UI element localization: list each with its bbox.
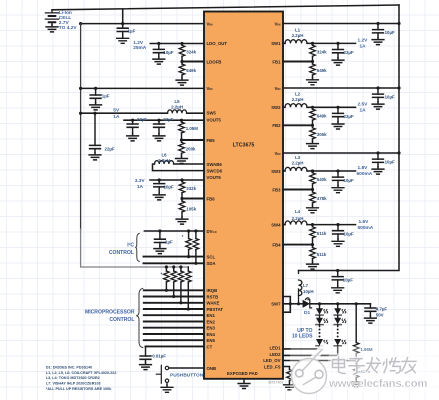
wire: drop from top rail to VIN1 line (122, 9, 124, 28)
resistor 324k (FB1 top) (311, 42, 314, 45)
pushbutton SW (156, 365, 168, 383)
ground (372, 102, 384, 109)
svg-text:2.2µH: 2.2µH (292, 216, 304, 221)
capacitor C1 1uF (VIN1) (117, 28, 128, 31)
wire: SCL line (144, 256, 205, 258)
wire: FB5 line (182, 139, 205, 141)
LED D7 (334, 339, 346, 346)
svg-text:VOUT6: VOUT6 (207, 175, 222, 180)
output label 2.5V 1A (358, 101, 369, 113)
wire: FB3 line (283, 189, 313, 191)
ground (332, 185, 344, 192)
svg-text:EN1: EN1 (207, 313, 216, 318)
ground (372, 37, 384, 44)
ground (332, 122, 344, 129)
ground (FB1) (307, 78, 319, 85)
svg-text:SWAB6: SWAB6 (207, 162, 223, 167)
svg-text:1A: 1A (360, 43, 367, 49)
svg-text:CONTROL: CONTROL (109, 250, 134, 256)
resistor 324k (LDO divider top) (180, 42, 183, 45)
svg-text:VIN: VIN (275, 86, 282, 91)
svg-text:511k: 511k (317, 252, 327, 257)
dotted continuation (337, 329, 339, 338)
capacitor 10uF (VOUT6) (158, 178, 161, 181)
resistor 478k (FB3 bottom) (312, 190, 314, 206)
ground (153, 193, 165, 200)
watermark haze (290, 346, 439, 400)
inductor L4 2.2uH (283, 224, 285, 226)
svg-text:10µF: 10µF (385, 94, 395, 99)
wire: left VIN rail lower (grey) (81, 229, 189, 267)
svg-text:22µF: 22µF (163, 117, 173, 122)
svg-text:*ALL PULL UP RESISTORS ARE 100: *ALL PULL UP RESISTORS ARE 100k (46, 387, 112, 391)
svg-text:L6: L6 (161, 153, 167, 158)
svg-text:SW4: SW4 (271, 222, 281, 227)
svg-text:L4: L4 (295, 209, 301, 214)
inductor L3 2.2uH (283, 170, 285, 172)
svg-text:CONTROL: CONTROL (109, 317, 134, 323)
svg-text:L1: L1 (295, 28, 301, 33)
svg-text:EN5: EN5 (207, 338, 216, 343)
output label 1.8V 600mA (357, 165, 373, 177)
svg-text:1µF: 1µF (128, 29, 136, 34)
svg-text:VIN: VIN (275, 21, 282, 26)
wire: RSTB line (144, 296, 204, 298)
ground (22uF input) (89, 153, 101, 160)
svg-text:22µF: 22µF (105, 146, 115, 151)
resistor 649k (FB1 bottom) (312, 62, 314, 78)
ground (649k) (176, 78, 188, 85)
capacitor 10uF (VOUT3) (336, 169, 339, 172)
svg-text:3.3V: 3.3V (135, 178, 146, 184)
LED D3 (316, 318, 328, 325)
svg-text:1.2V: 1.2V (358, 37, 369, 43)
resistor 200k (FB5 bottom) (181, 140, 183, 156)
svg-text:L3, L4: TOKO MDT2520 CR2R2: L3, L4: TOKO MDT2520 CR2R2 (46, 376, 100, 380)
svg-text:10µH: 10µH (303, 289, 314, 294)
wire: VIN top rail (52, 5, 399, 10)
ground (24.9k) (284, 383, 296, 390)
wire: FB1 line (283, 61, 313, 63)
resistor pull-up PBSTAT (187, 267, 189, 309)
wire: VIN2 line (left) (81, 87, 204, 89)
svg-text:649k: 649k (186, 68, 196, 73)
svg-text:PBSTAT: PBSTAT (207, 307, 224, 312)
ground (200k) (176, 156, 188, 163)
svg-text:10 LEDS: 10 LEDS (292, 334, 313, 340)
svg-text:EN3: EN3 (207, 326, 216, 331)
capacitor 22uF (VOUT5 b) (157, 119, 160, 122)
svg-text:SW3: SW3 (271, 169, 281, 174)
brace (I2C) (135, 233, 139, 261)
svg-text:511k: 511k (317, 231, 327, 236)
svg-text:LDO_OUT: LDO_OUT (207, 41, 228, 46)
ground (exposed pad) (238, 381, 250, 388)
inductor L6 2.2uH (buck-boost) (153, 164, 205, 171)
svg-text:LED1: LED1 (270, 346, 282, 351)
op-amp U1 LTC3675 PMIC body (204, 12, 283, 379)
svg-text:SW2: SW2 (271, 105, 281, 110)
svg-text:1A: 1A (360, 107, 367, 113)
svg-text:L3: L3 (295, 155, 301, 160)
resistor 649k (LDO divider bottom) (181, 62, 183, 78)
resistor pull-up SCL (187, 229, 190, 232)
watermark logo (292, 346, 327, 394)
wire: VOUT2 line (307, 106, 356, 108)
capacitor 10uF (VOUT4) (336, 223, 339, 226)
svg-text:FB5: FB5 (207, 138, 216, 143)
resistor pull-up IRQB (165, 267, 167, 290)
ground (153, 134, 165, 141)
svg-text:ONB: ONB (207, 366, 217, 371)
resistor 305k (FB2 bottom) (312, 125, 314, 141)
svg-text:10µF: 10µF (164, 185, 174, 190)
resistor 1.05M (FB5 top) (180, 119, 183, 122)
LED D5 (334, 308, 346, 315)
wire: LDOFB line (182, 61, 204, 63)
svg-text:L2: L2 (295, 92, 301, 97)
svg-text:FB1: FB1 (272, 59, 281, 64)
capacitor 22uF (VOUT1) (336, 42, 339, 45)
ground (VIN2 cap) (90, 103, 102, 110)
svg-text:L1, L2, L5, L6: COILCRAFT XFL4: L1, L2, L5, L6: COILCRAFT XFL4020-222 (46, 371, 117, 375)
svg-text:SWCD6: SWCD6 (207, 168, 223, 173)
LDO output label (133, 40, 147, 51)
capacitor 10uF (VIN right 1) (376, 22, 379, 25)
svg-text:10µF: 10µF (163, 50, 173, 55)
wire: EN5 line (144, 339, 204, 341)
wire: EN1 line (144, 314, 204, 316)
inductor L5 2.2uH (168, 110, 187, 113)
wire: SW7 pin stubs bridge (283, 297, 290, 313)
ground (C1) (117, 36, 129, 43)
svg-text:0.01µF: 0.01µF (152, 353, 166, 358)
battery BT1 (Li-Ion cell) (45, 10, 58, 25)
capacitor 10uF (boost LED supply) (336, 269, 339, 272)
ground (LDO cap) (153, 57, 165, 64)
svg-text:LTC3675: LTC3675 (233, 143, 255, 149)
svg-text:L7: VISHAY IHLP 2020CZER103: L7: VISHAY IHLP 2020CZER103 (46, 382, 101, 386)
svg-text:1.6V: 1.6V (359, 219, 370, 225)
svg-text:10µF: 10µF (385, 159, 395, 164)
wire: LDO_OUT line (150, 43, 204, 45)
node: VIN1/rail junctions (79, 22, 82, 25)
ground (332, 58, 344, 65)
ground (332, 239, 344, 246)
svg-text:105k: 105k (186, 206, 196, 211)
VOUT5 output label (113, 108, 120, 120)
svg-text:*: * (161, 272, 163, 277)
LED D4 (316, 339, 328, 346)
ground (365, 316, 377, 323)
svg-text:10µF: 10µF (344, 178, 354, 183)
svg-text:WAKE: WAKE (207, 301, 220, 306)
resistor 511k (FB4 bottom) (312, 245, 314, 262)
wire: column2 to LED2 pin (283, 346, 338, 355)
resistor pull-up SDA (194, 229, 197, 232)
ground (DVCC cap) (154, 246, 166, 253)
ground (FB3) (307, 206, 319, 213)
wire: right VIN rail (299, 5, 400, 271)
svg-text:FB2: FB2 (272, 123, 281, 128)
svg-text:1µF: 1µF (102, 93, 110, 98)
ground (105k) (176, 217, 188, 224)
capacitor 10uF (VIN right 3) (376, 151, 379, 154)
ground (pushbutton) (161, 385, 173, 392)
wire: WAKE line (144, 302, 204, 304)
resistor 649k (FB2 top) (311, 106, 314, 109)
svg-text:3675 TA01: 3675 TA01 (268, 380, 284, 384)
ground (127, 134, 139, 141)
resistor 540k (FB3 top) (311, 169, 314, 172)
svg-text:2.2µH: 2.2µH (171, 105, 183, 110)
wire: VOUT5 line (124, 119, 204, 121)
svg-text:EN4: EN4 (207, 332, 216, 337)
brace (microprocessor) (136, 288, 143, 347)
wire: VOUT4 line (307, 224, 356, 226)
wire: SDA line (144, 262, 205, 264)
dotted continuation (319, 329, 321, 338)
svg-text:50V: 50V (376, 312, 384, 317)
svg-text:IRQB: IRQB (207, 288, 218, 293)
wire: FB4 line (283, 244, 313, 246)
wire: PBSTAT line (144, 308, 204, 310)
capacitor 22uF (VOUT2) (336, 106, 339, 109)
svg-text:SW1: SW1 (271, 41, 281, 46)
svg-text:*: * (182, 234, 184, 239)
svg-text:22µF: 22µF (344, 114, 354, 119)
ground (CT cap) (140, 362, 152, 369)
svg-text:10µF: 10µF (343, 277, 353, 282)
LED string column 2 (336, 302, 339, 305)
wire: VIN1 line (left) (81, 23, 204, 25)
wire: VOUT1 line (307, 42, 356, 44)
LED string column 1 (318, 302, 321, 305)
wire: exposed pad to ground (243, 379, 245, 381)
diode D1 (303, 300, 310, 308)
watermark CJK text (stylized strokes) (333, 357, 417, 375)
svg-text:200k: 200k (186, 146, 196, 151)
wire: pushbutton to ground (166, 383, 168, 385)
wire: VOUT6 line (150, 179, 204, 181)
capacitor 22uF (VOUT5 a) (131, 119, 134, 122)
capacitor 10uF (VIN right 2) (376, 86, 379, 89)
svg-text:VOUT5: VOUT5 (207, 117, 222, 122)
svg-text:PUSHBUTTON: PUSHBUTTON (170, 373, 204, 379)
ground (332, 286, 344, 293)
capacitor 10uF (LDO) (157, 42, 160, 45)
svg-text:1µF: 1µF (165, 240, 173, 245)
svg-text:VIN: VIN (275, 151, 282, 156)
svg-text:VIN: VIN (207, 21, 214, 26)
svg-text:2.2µH: 2.2µH (292, 97, 304, 102)
battery label (59, 10, 78, 31)
svg-text:D1: D1 (304, 310, 310, 316)
svg-text:CELL: CELL (59, 15, 72, 21)
svg-text:332k: 332k (186, 186, 196, 191)
inductor L7 10uH (298, 271, 300, 304)
svg-text:TO 4.2V: TO 4.2V (59, 25, 78, 31)
svg-text:25mA: 25mA (133, 45, 147, 51)
svg-text:324k: 324k (186, 50, 196, 55)
capacitor 4.7uF 50V (369, 304, 371, 308)
svg-text:1.8V: 1.8V (358, 165, 369, 171)
svg-text:FB3: FB3 (272, 187, 281, 192)
svg-text:1.2V: 1.2V (133, 40, 144, 46)
wire: EN4 line (144, 333, 204, 335)
svg-text:LED2: LED2 (270, 352, 282, 357)
wire: VIN right line 3 (283, 152, 399, 154)
wire: VIN right line 1 (283, 23, 399, 25)
svg-text:LED_FS: LED_FS (264, 364, 281, 369)
svg-text:D1: DIODES INC. PD3S140: D1: DIODES INC. PD3S140 (46, 366, 92, 370)
svg-text:10µF: 10µF (385, 30, 395, 35)
svg-text:5V: 5V (113, 108, 120, 114)
svg-text:L5: L5 (174, 99, 180, 104)
svg-text:RSTB: RSTB (207, 294, 219, 299)
svg-text:LED_OV: LED_OV (263, 358, 280, 363)
svg-text:SCL: SCL (207, 254, 216, 259)
wire: ONB to pushbutton (169, 367, 204, 369)
resistor 1.96M (LED OV top) (355, 302, 358, 305)
wire: LED_OV line (283, 360, 356, 362)
output label 1.2V 1A (358, 37, 369, 49)
svg-text:600mA: 600mA (357, 171, 373, 177)
svg-text:1A: 1A (113, 114, 120, 120)
resistor 432k (LED OV bottom) (355, 361, 357, 380)
resistor pull-up RSTB (173, 267, 175, 297)
svg-text:EN2: EN2 (207, 319, 216, 324)
wire: EN3 line (144, 327, 204, 329)
svg-text:649k: 649k (317, 114, 327, 119)
svg-text:CT: CT (207, 344, 213, 349)
capacitor 1uF (VIN2) (94, 87, 97, 90)
inductor L1 2.2uH (283, 42, 285, 44)
wire: column1 to LED1 pin (283, 346, 320, 349)
ground (FB2) (307, 141, 319, 148)
ground (372, 167, 384, 174)
svg-text:LDOFB: LDOFB (207, 59, 222, 64)
wire: left VIN vertical rail (80, 24, 82, 230)
svg-text:SDA: SDA (207, 261, 216, 266)
svg-text:VIN: VIN (207, 86, 214, 91)
wire: EN2 line (144, 321, 204, 323)
wire: VIN right line 2 (283, 87, 399, 89)
svg-text:305k: 305k (317, 132, 327, 137)
svg-text:SW5: SW5 (207, 111, 217, 116)
svg-text:4.7µF: 4.7µF (376, 306, 388, 311)
wire: CT line (146, 345, 205, 347)
svg-text:2.2µH: 2.2µH (158, 158, 170, 163)
LED D6 (334, 318, 346, 325)
VOUT6 output label (135, 178, 146, 190)
resistor pull-up WAKE (180, 267, 182, 303)
svg-text:L7: L7 (303, 283, 309, 288)
svg-text:2.7V: 2.7V (59, 20, 70, 26)
svg-text:324k: 324k (317, 50, 327, 55)
resistor 511k (FB4 top) (311, 223, 314, 226)
svg-text:2.2µH: 2.2µH (292, 33, 304, 38)
UP TO 10 LEDS label (292, 328, 313, 340)
capacitor 1uF (DVCC) (158, 229, 161, 232)
wire: LED_FS stub (283, 367, 290, 370)
svg-text:1.05M: 1.05M (186, 126, 199, 131)
capacitor 0.01uF (CT) (145, 346, 147, 356)
svg-text:EXPOSED PAD: EXPOSED PAD (227, 371, 258, 376)
svg-text:540k: 540k (317, 177, 327, 182)
resistor 332k (FB6 top) (180, 178, 183, 181)
svg-text:Li-Ion: Li-Ion (59, 10, 72, 16)
wire: LED rail (310, 303, 371, 305)
capacitor 22uF (boost input) (93, 112, 96, 115)
svg-text:FB4: FB4 (272, 242, 281, 247)
resistor 24.9k (LED_FS) (287, 370, 293, 381)
resistor 105k (FB6 bottom) (181, 199, 183, 217)
wire: FB6 line (182, 198, 204, 200)
output label 1.6V 500mA (358, 219, 374, 231)
svg-text:DVCC: DVCC (207, 229, 218, 234)
wire: FB2 line (283, 124, 313, 126)
svg-text:MICROPROCESSOR: MICROPROCESSOR (85, 310, 135, 316)
notes text (46, 366, 117, 391)
svg-text:www.elecfans.com: www.elecfans.com (328, 378, 427, 390)
svg-text:SW7: SW7 (271, 302, 281, 307)
I2C CONTROL label (109, 243, 135, 256)
wire: IRQB line (144, 289, 204, 291)
svg-text:10µF: 10µF (344, 231, 354, 236)
svg-text:22µF: 22µF (344, 50, 354, 55)
MICROPROCESSOR CONTROL label (85, 310, 135, 324)
wire: DVCC line (144, 230, 204, 232)
svg-text:2.2µH: 2.2µH (292, 161, 304, 166)
svg-text:I²C: I²C (127, 243, 134, 249)
svg-text:22µF: 22µF (137, 117, 147, 122)
ground (battery) (46, 25, 58, 32)
svg-text:FB6: FB6 (207, 196, 216, 201)
ground (432k) (350, 380, 362, 387)
svg-text:649k: 649k (317, 68, 327, 73)
svg-text:1A: 1A (137, 184, 144, 190)
svg-text:500mA: 500mA (358, 225, 374, 231)
wire: SW7 node line (290, 303, 303, 305)
inductor L2 2.2uH (283, 106, 285, 108)
svg-text:478k: 478k (317, 196, 327, 201)
svg-text:2.5V: 2.5V (358, 101, 369, 107)
wire: VOUT3 line (307, 170, 356, 172)
wire: SW5 boost line (81, 112, 204, 114)
LED D2 (316, 308, 328, 315)
ground (FB4) (307, 262, 319, 269)
